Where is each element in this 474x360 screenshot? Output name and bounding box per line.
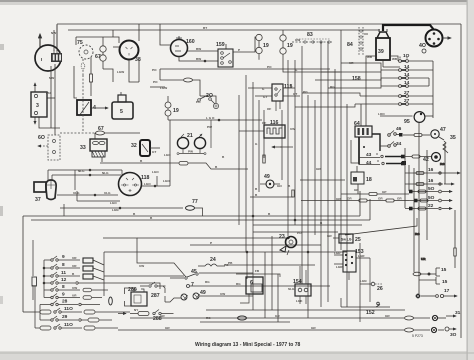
svg-text:5 P273: 5 P273 [412, 334, 423, 338]
heater switch 287 [140, 282, 166, 302]
instrument cluster 118 [119, 173, 150, 196]
svg-text:LGO: LGO [163, 179, 170, 183]
main light wires PO [152, 65, 330, 96]
svg-text:LOO: LOO [378, 112, 385, 116]
left drop to ladder [23, 216, 35, 312]
svg-text:LGR: LGR [358, 254, 365, 258]
wire v3 [252, 82, 254, 310]
svg-text:9: 9 [62, 292, 65, 298]
row 16 b [405, 178, 454, 186]
svg-text:PO: PO [153, 80, 158, 84]
svg-text:GR: GR [165, 326, 170, 330]
svg-text:PO: PO [303, 90, 308, 94]
svg-text:LGW: LGW [117, 70, 124, 74]
connector 83 [292, 32, 332, 43]
svg-text:46: 46 [396, 126, 402, 132]
flasher unit 154 [288, 266, 311, 304]
resistor inline [263, 155, 265, 163]
flasher switch 159 [216, 42, 233, 67]
row 8a [44, 262, 93, 271]
switch row 46 [388, 126, 430, 137]
fusebox rows [352, 53, 433, 118]
svg-text:OF: OF [267, 107, 271, 111]
LGO wire [150, 86, 262, 121]
svg-text:19: 19 [287, 43, 293, 49]
svg-text:ULG: ULG [104, 191, 111, 195]
svg-text:ULG: ULG [73, 191, 80, 195]
svg-text:5: 5 [120, 109, 123, 115]
ignition coil 39 [376, 29, 390, 60]
voltage stabilizer 115 [248, 84, 300, 111]
switch 32 [131, 140, 160, 156]
fuel gauge wires [196, 96, 216, 104]
horizontal feeds into fusebox [295, 63, 381, 107]
row 9a [44, 254, 93, 263]
connector 84 [347, 27, 363, 55]
svg-text:GR: GR [160, 314, 165, 318]
row 50 a [409, 186, 452, 193]
svg-text:UR: UR [72, 294, 77, 298]
svg-text:RG: RG [236, 282, 241, 286]
ignition switch 64 [354, 121, 372, 137]
coil wires [361, 34, 398, 126]
wires 160 to 159 [160, 24, 218, 62]
row 50 b [409, 195, 452, 202]
B bus 2 [31, 219, 370, 221]
oval connector bottom left [200, 316, 290, 322]
svg-text:NW: NW [51, 31, 56, 35]
svg-text:25: 25 [355, 237, 361, 243]
wire v4 [258, 100, 260, 192]
svg-text:49: 49 [200, 290, 206, 296]
B wire with fuse y163 [100, 120, 248, 186]
svg-text:19: 19 [263, 43, 269, 49]
wire v8 [294, 60, 296, 225]
svg-text:GT: GT [152, 150, 156, 154]
svg-text:LGO: LGO [110, 201, 117, 205]
svg-text:67: 67 [95, 54, 101, 60]
svg-text:Sw LG: Sw LG [341, 238, 352, 242]
svg-text:6O: 6O [38, 135, 45, 141]
wire to 30 [118, 329, 404, 331]
wire h197 [250, 196, 293, 198]
fuel pump 6 [236, 269, 280, 303]
fuse 27 a [360, 90, 433, 97]
svg-text:GR: GR [311, 326, 316, 330]
svg-text:NLG: NLG [102, 171, 109, 175]
row 11 [44, 270, 93, 279]
svg-text:GW: GW [295, 38, 300, 42]
fog lamps 15 [413, 267, 448, 285]
svg-text:Wiring diagram 13 - Mini Speci: Wiring diagram 13 - Mini Special - 1977 … [195, 342, 300, 348]
wire v16 [346, 104, 348, 307]
svg-text:NW: NW [49, 76, 54, 80]
svg-text:159: 159 [216, 42, 225, 48]
svg-text:LGO: LGO [152, 170, 159, 174]
svg-text:31: 31 [455, 310, 461, 316]
svg-text:LGR: LGR [336, 265, 343, 269]
starter motor 5 [91, 92, 133, 119]
fuse 14 c [381, 80, 429, 87]
svg-text:11O: 11O [64, 306, 73, 312]
lighting switch 20 [198, 93, 219, 109]
svg-text:33: 33 [80, 145, 86, 151]
svg-text:PO: PO [267, 65, 272, 69]
row 28 [40, 299, 100, 306]
pilot bulbs 19 pair A [256, 34, 269, 59]
wire v1 [238, 95, 240, 225]
frame left [56, 24, 58, 48]
svg-text:1O: 1O [403, 53, 410, 59]
reversing lamp 17 [416, 288, 457, 298]
switch row 34 [380, 141, 402, 147]
wire to 31 [206, 309, 405, 311]
svg-text:4O: 4O [419, 43, 426, 49]
svg-text:RG: RG [330, 85, 335, 89]
connector pair 49 lower [165, 290, 207, 302]
sidelamp bulbs 19 pair C [165, 96, 179, 120]
row 16 a [405, 167, 460, 175]
resistor 35 [443, 135, 456, 153]
switch 45 [170, 269, 198, 279]
svg-text:UW: UW [72, 286, 77, 290]
fuse 10 [383, 53, 433, 67]
wires NLG [48, 169, 170, 190]
fuse 14 b [381, 72, 429, 79]
svg-text:GP: GP [382, 190, 386, 194]
heater unit 286 [109, 287, 147, 306]
svg-text:L G O: L G O [206, 116, 215, 120]
switch row 44 [359, 160, 405, 166]
battery 3 [31, 92, 47, 117]
svg-text:P: P [238, 48, 240, 52]
svg-text:PW: PW [188, 150, 193, 154]
svg-text:SLG: SLG [288, 287, 295, 291]
svg-text:BW: BW [196, 47, 201, 51]
svg-text:PO: PO [297, 231, 302, 235]
wire h180 [300, 179, 345, 181]
connector 49 upper [260, 174, 282, 188]
row 8b [44, 284, 108, 292]
wires from generator down [35, 25, 380, 135]
svg-text:14: 14 [404, 80, 410, 86]
wire v13 [327, 42, 329, 302]
svg-text:GT: GT [293, 92, 297, 96]
arrow left [272, 146, 282, 148]
row 12 [44, 277, 78, 284]
svg-text:23: 23 [279, 234, 285, 240]
switch 25 [327, 234, 361, 243]
wire v14 [334, 69, 336, 251]
flasher 153 [334, 249, 370, 302]
left bus connector [32, 277, 37, 286]
svg-text:GT: GT [263, 95, 267, 99]
relay 33 [80, 133, 107, 162]
svg-text:6: 6 [250, 280, 253, 286]
frame top [57, 23, 461, 25]
resistor row 288 [118, 308, 174, 322]
svg-text:43: 43 [366, 152, 372, 158]
pilot bulbs 19 pair B [280, 30, 340, 72]
svg-text:15: 15 [441, 267, 447, 273]
switch row 43 [359, 152, 432, 158]
riser joins [103, 252, 105, 296]
67 line connector oval [60, 126, 140, 135]
row 29 [40, 314, 112, 322]
svg-text:287: 287 [151, 293, 160, 299]
svg-text:PW: PW [207, 125, 212, 129]
svg-text:LGK: LGK [296, 299, 303, 303]
svg-text:UR: UR [72, 264, 77, 268]
svg-text:17: 17 [444, 288, 450, 294]
svg-text:BW: BW [196, 57, 201, 61]
svg-text:12: 12 [61, 277, 67, 283]
row 110b [35, 322, 118, 330]
svg-text:38: 38 [135, 57, 141, 63]
ignition thick wires [358, 137, 360, 165]
svg-text:14: 14 [404, 64, 410, 70]
flasher bulbs 67 (top) [95, 37, 106, 69]
row 22 [405, 203, 452, 210]
wire v15 [340, 30, 342, 250]
bottom long wires [118, 310, 461, 338]
svg-text:P: P [210, 241, 212, 245]
svg-text:GR: GR [275, 314, 280, 318]
svg-text:RG: RG [440, 162, 445, 166]
svg-text:UR: UR [72, 256, 77, 260]
svg-text:9: 9 [62, 254, 65, 260]
svg-text:14: 14 [404, 72, 410, 78]
svg-text:47: 47 [440, 127, 446, 133]
svg-text:158: 158 [352, 76, 361, 82]
distributor 40 [419, 30, 451, 54]
svg-text:49: 49 [264, 174, 270, 180]
svg-text:8: 8 [62, 284, 65, 290]
svg-text:44: 44 [366, 160, 372, 166]
fuse 27 b [355, 98, 433, 105]
wires ULG LGO LGN [57, 191, 183, 212]
connector 77 [186, 199, 203, 216]
svg-text:35: 35 [450, 135, 456, 141]
svg-text:77: 77 [192, 199, 198, 205]
svg-text:NLG: NLG [78, 169, 85, 173]
right verticals [405, 123, 456, 296]
svg-text:UW: UW [139, 264, 144, 268]
svg-text:GR: GR [385, 314, 390, 318]
svg-text:LGO: LGO [164, 153, 171, 157]
wiper motor 37 [34, 180, 64, 216]
wiper switch 18 [351, 166, 372, 184]
heated rear window 116 [239, 120, 285, 138]
svg-text:84: 84 [347, 42, 353, 48]
svg-text:11O: 11O [64, 322, 73, 328]
svg-text:LGO: LGO [144, 182, 151, 186]
terminal 7 [187, 282, 231, 288]
wire 159 to bulbs [233, 37, 256, 52]
wire top inner [68, 29, 380, 31]
svg-text:95: 95 [404, 119, 410, 125]
svg-text:UW: UW [220, 292, 225, 296]
svg-text:27: 27 [404, 90, 410, 96]
wire v2 [245, 75, 247, 252]
svg-text:PO: PO [196, 100, 201, 104]
wire v17 [359, 243, 361, 322]
svg-text:75: 75 [77, 40, 83, 46]
solenoid 4 [46, 76, 96, 116]
svg-text:3O: 3O [450, 332, 457, 338]
wire h147 [280, 146, 293, 148]
svg-text:21: 21 [187, 133, 193, 139]
wire v12 [320, 42, 322, 307]
svg-text:GR: GR [347, 197, 352, 201]
fuse 14 a [381, 64, 433, 71]
wire v10 [307, 95, 309, 318]
horn unit 160 [171, 36, 195, 57]
svg-text:PO: PO [152, 68, 157, 72]
svg-text:28: 28 [62, 299, 68, 305]
svg-text:34: 34 [396, 141, 402, 147]
svg-text:GR: GR [327, 234, 332, 238]
connector 26 [360, 279, 383, 292]
svg-text:PB: PB [228, 261, 233, 265]
wire v11 [314, 100, 316, 235]
switch 152 [341, 298, 390, 316]
row 110a [35, 306, 130, 314]
wire v9 [301, 46, 303, 284]
HT lead thick [383, 25, 434, 31]
svg-text:16: 16 [428, 178, 434, 184]
wire v20 [277, 274, 279, 322]
wire v5 [263, 110, 265, 158]
horn 95 [378, 112, 433, 125]
svg-text:18: 18 [366, 177, 372, 183]
wire v18 [264, 252, 266, 318]
wires top-left cluster [76, 24, 139, 82]
svg-text:27: 27 [404, 98, 410, 104]
wires right of 45/7 [104, 273, 330, 296]
svg-text:16: 16 [428, 167, 434, 173]
svg-text:42: 42 [423, 157, 429, 163]
svg-text:GR: GR [336, 197, 341, 201]
svg-text:RG: RG [205, 280, 210, 284]
ladder buses [43, 260, 45, 290]
svg-text:PO: PO [224, 263, 229, 267]
battery 3 wires [34, 83, 36, 92]
svg-text:BT: BT [203, 26, 207, 30]
svg-text:118: 118 [141, 175, 149, 181]
svg-text:MU: MU [46, 91, 52, 95]
headlamp 42 [423, 153, 441, 164]
svg-text:39: 39 [378, 49, 384, 55]
svg-text:GN: GN [277, 184, 282, 188]
svg-text:LGN: LGN [360, 279, 367, 283]
svg-text:RG: RG [415, 232, 420, 236]
svg-text:8: 8 [62, 262, 65, 268]
svg-text:15: 15 [442, 279, 448, 285]
svg-text:29: 29 [62, 314, 68, 320]
svg-text:GR: GR [397, 197, 402, 201]
wire v7 [287, 60, 289, 236]
svg-text:UW: UW [290, 127, 295, 131]
60 dashed unit [38, 135, 60, 160]
svg-text:LGR: LGR [334, 251, 341, 255]
svg-text:GP: GP [354, 188, 358, 192]
switch 24 [198, 257, 229, 267]
stop lamp feed 47 [431, 127, 446, 140]
gauges 21 [177, 120, 212, 169]
svg-text:GR: GR [378, 197, 383, 201]
wire v19 [271, 236, 273, 310]
svg-text:11: 11 [61, 270, 66, 276]
svg-text:3: 3 [36, 103, 39, 109]
svg-text:WB: WB [392, 57, 398, 61]
svg-text:24: 24 [210, 257, 216, 263]
fusebox bracket [380, 70, 382, 86]
svg-text:UR: UR [421, 257, 426, 261]
svg-text:152: 152 [366, 310, 375, 316]
middle horizontal runs [103, 218, 417, 279]
wire v6 [281, 110, 283, 180]
indicator unit 75 [77, 40, 93, 131]
frame right [460, 24, 462, 338]
resistor wire rows GP/GR [301, 184, 409, 202]
ladder rows [33, 240, 160, 330]
resistor on v8 [292, 190, 294, 197]
svg-text:32: 32 [131, 143, 137, 149]
generator 1 [35, 45, 62, 71]
svg-text:7: 7 [191, 282, 194, 288]
B bus labels [23, 26, 370, 225]
svg-text:19: 19 [173, 108, 179, 114]
horn 23 [279, 231, 302, 255]
svg-text:26: 26 [377, 286, 383, 292]
svg-text:83: 83 [307, 32, 313, 38]
svg-text:37: 37 [35, 197, 41, 203]
B bus 1 [23, 215, 360, 217]
svg-text:GR: GR [316, 167, 321, 171]
ignition warning lamp circle 38 [120, 41, 141, 64]
svg-text:LGN: LGN [112, 208, 119, 212]
row 9b [44, 292, 102, 300]
wire arrow up from generator [39, 34, 41, 48]
